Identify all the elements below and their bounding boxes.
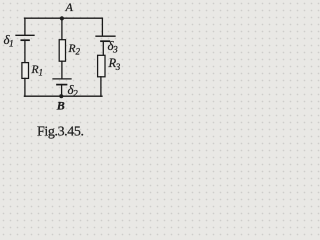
- wire right branch between E3 and R3: [102, 41, 104, 55]
- battery E1 long plate: [16, 34, 34, 36]
- svg-text:R3: R3: [108, 56, 121, 72]
- battery E1 short plate: [21, 39, 29, 41]
- wire middle branch between R2 and E2: [61, 61, 63, 79]
- svg-text:R1: R1: [31, 64, 44, 78]
- svg-text:δ1: δ1: [4, 32, 14, 50]
- wire left branch middle: [24, 40, 26, 62]
- battery E2 long plate: [53, 78, 71, 80]
- battery E3 long plate: [96, 35, 115, 37]
- svg-text:δ2: δ2: [68, 82, 78, 100]
- node A junction dot: [60, 16, 64, 20]
- node B junction dot: [59, 94, 63, 98]
- wire middle branch upper: [61, 18, 63, 40]
- wire right branch lower: [100, 77, 102, 96]
- wire middle branch lower: [61, 85, 63, 97]
- resistor R3: [98, 55, 105, 77]
- battery E2 short plate: [57, 84, 67, 86]
- wire right branch upper: [101, 18, 103, 36]
- resistor R1: [22, 63, 29, 79]
- resistor R2: [59, 40, 65, 62]
- svg-text:B: B: [56, 99, 65, 113]
- svg-text:Fig.3.45.: Fig.3.45.: [37, 125, 84, 140]
- svg-text:R2: R2: [68, 43, 81, 57]
- svg-text:A: A: [65, 0, 74, 14]
- wire bottom (B rail): [24, 95, 102, 97]
- wire top (A rail): [25, 17, 103, 19]
- wire left branch lower: [24, 78, 26, 96]
- wire left branch upper: [24, 18, 26, 35]
- battery E3 short plate: [101, 40, 109, 42]
- svg-text:δ3: δ3: [108, 38, 118, 56]
